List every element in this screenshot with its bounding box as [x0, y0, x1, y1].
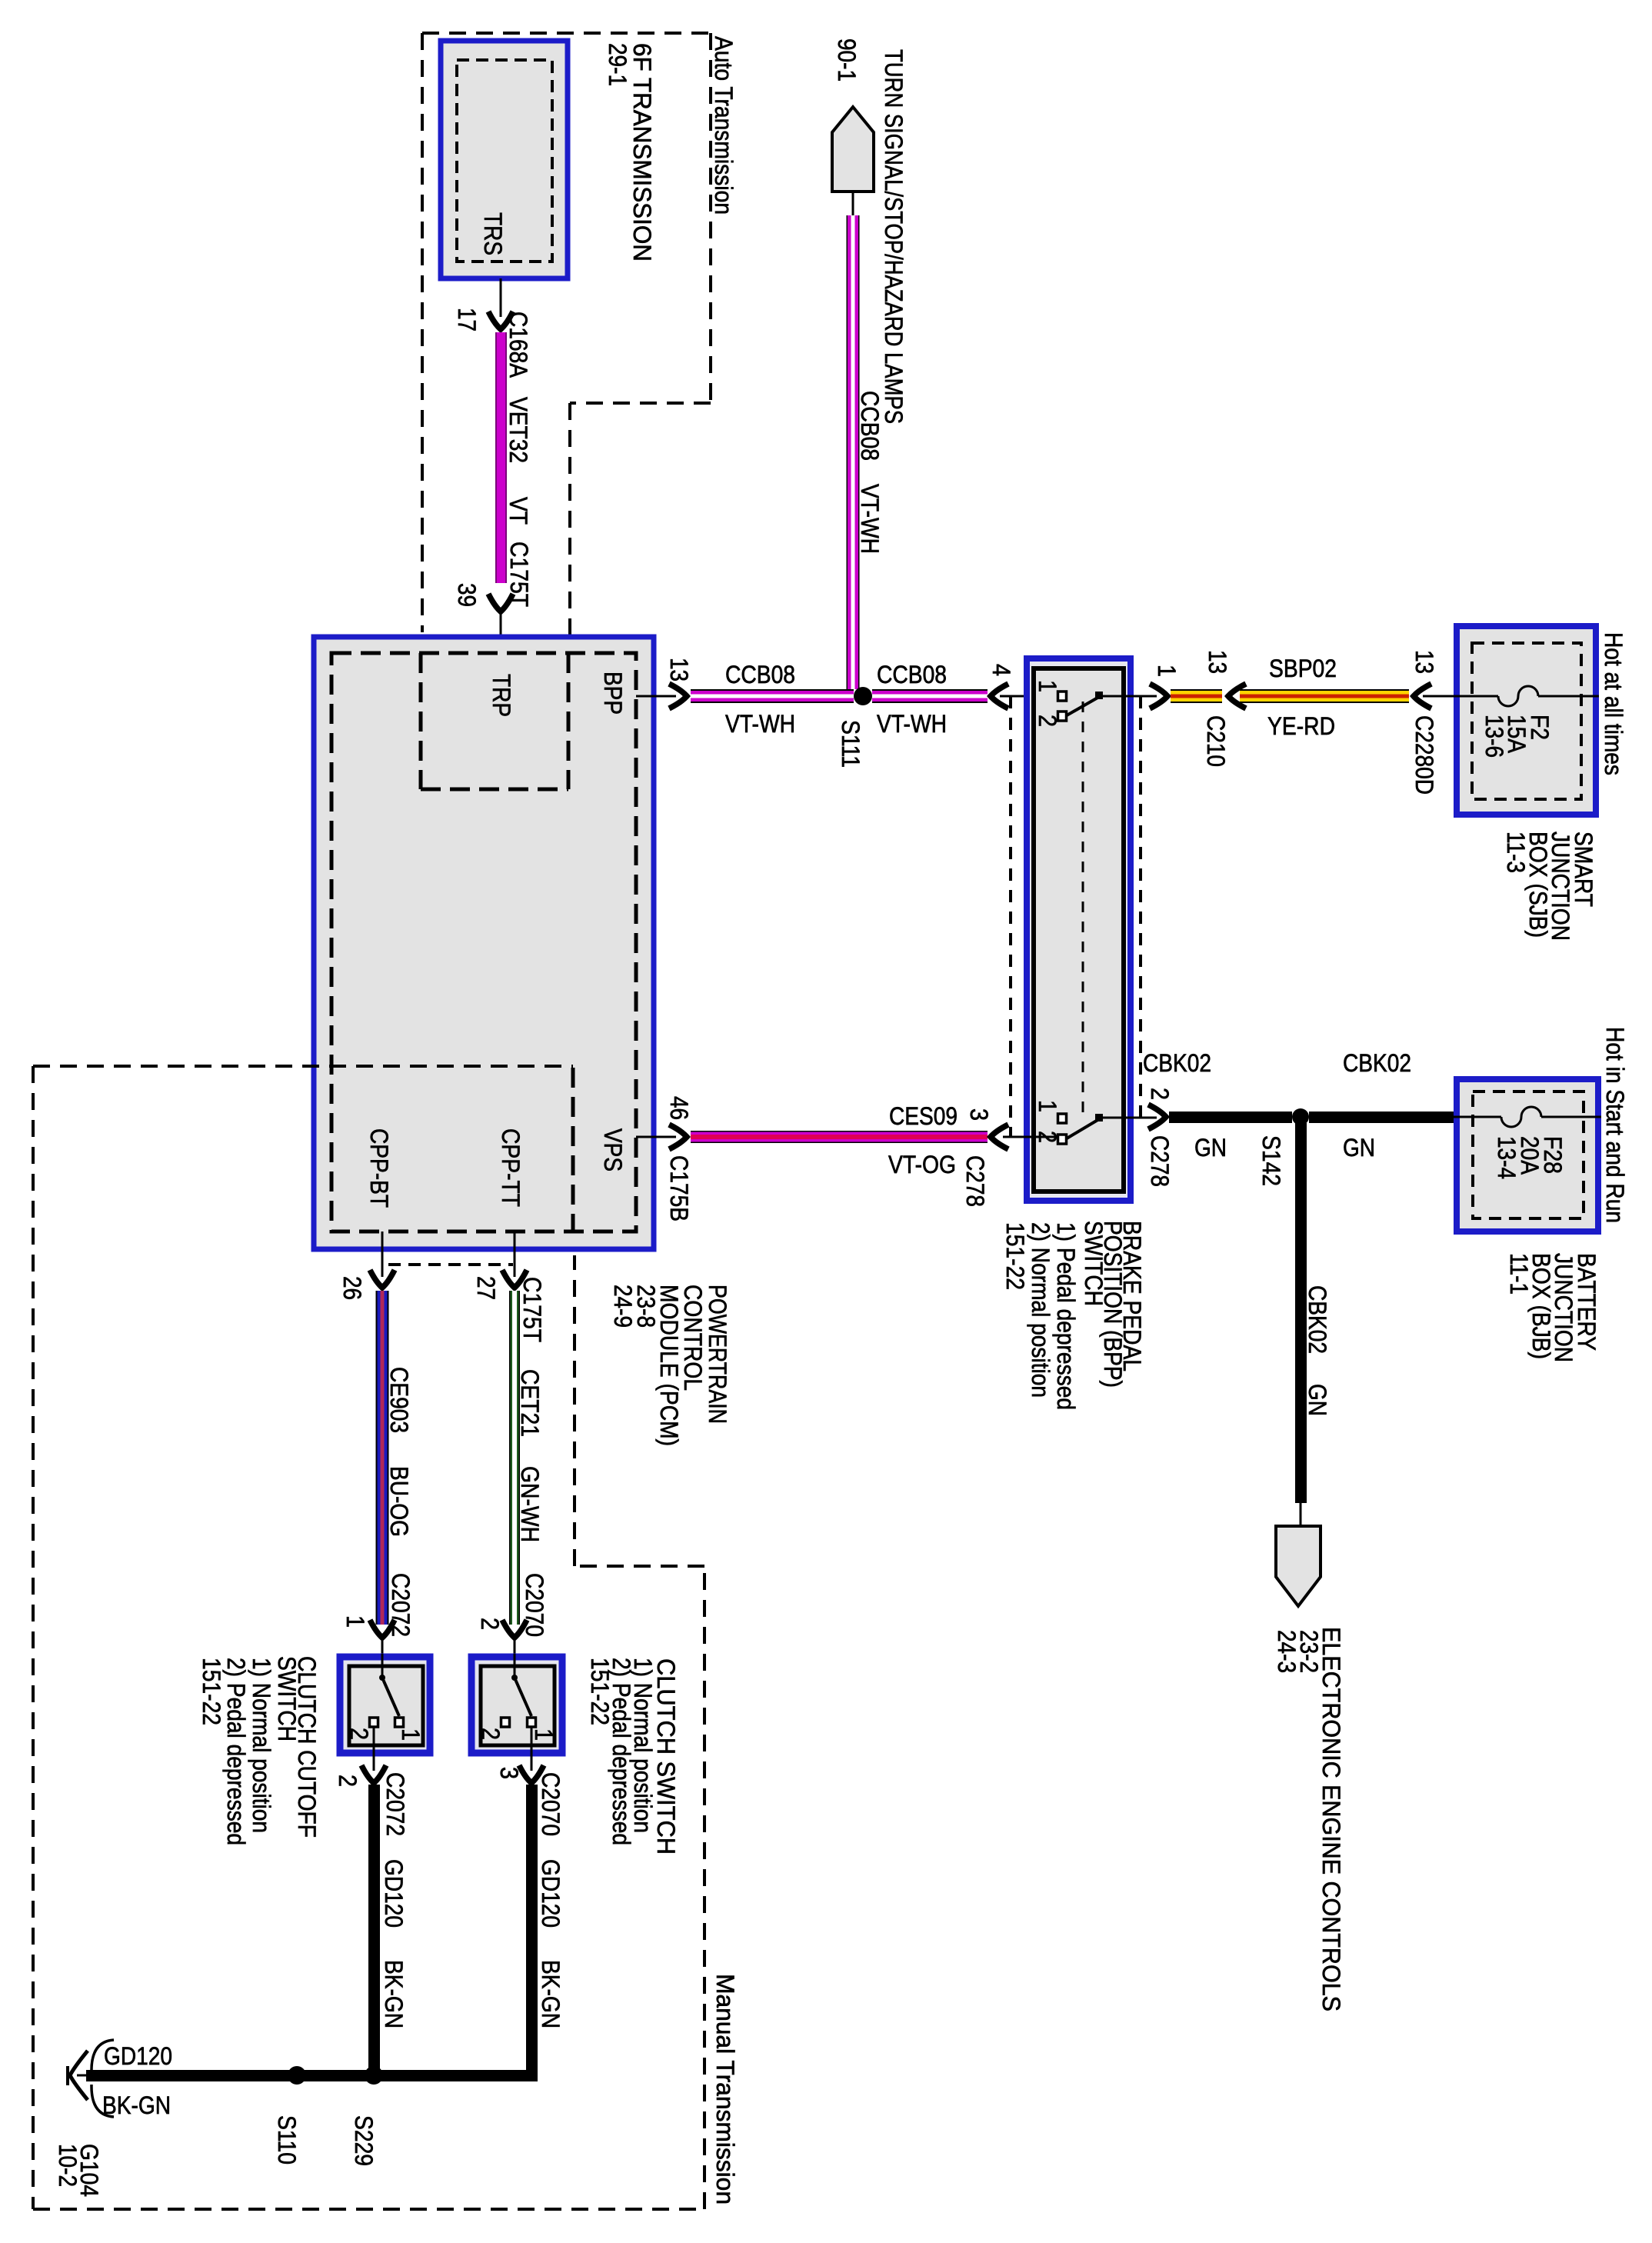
wire stub into PCM TRP pin	[500, 612, 502, 653]
svg-text:C278: C278	[961, 1155, 989, 1207]
svg-text:13: 13	[1411, 650, 1438, 674]
wire CCB08 VT-WH (vertical, violet-white)	[847, 215, 884, 689]
svg-text:CPP-TT: CPP-TT	[497, 1128, 525, 1207]
svg-text:CPP-BT: CPP-BT	[365, 1128, 393, 1208]
svg-text:S142: S142	[1257, 1135, 1285, 1186]
splice S229	[350, 2066, 383, 2166]
svg-text:Auto Transmission: Auto Transmission	[710, 36, 738, 215]
fuse F28 20A	[1454, 1107, 1601, 1179]
svg-text:VT-WH: VT-WH	[856, 484, 884, 554]
svg-text:C2280D: C2280D	[1411, 715, 1438, 795]
svg-text:39: 39	[453, 583, 481, 607]
svg-text:2: 2	[1034, 715, 1061, 727]
PCM pin 13 / wire to S111	[636, 658, 693, 708]
svg-text:CBK02: CBK02	[1143, 1049, 1211, 1077]
svg-text:BK-GN: BK-GN	[102, 2091, 171, 2119]
svg-text:13: 13	[1204, 650, 1231, 674]
connector C278 pin 3	[961, 1108, 1008, 1207]
ground G104	[54, 2051, 103, 2197]
svg-text:GN: GN	[1343, 1134, 1375, 1161]
clutch switch box	[471, 1654, 562, 1771]
wire CCB08 VT-WH right segment	[872, 661, 988, 738]
svg-text:1: 1	[1034, 680, 1061, 692]
wire SBP02 YE-RD segment 2	[1240, 655, 1409, 740]
svg-text:CE903: CE903	[385, 1367, 413, 1433]
svg-text:4: 4	[988, 664, 1015, 676]
wire CES09 VT-OG (violet-orange)	[691, 1102, 988, 1178]
label Hot in Start and Run	[1601, 1027, 1629, 1223]
connector C2280D pin 13 (SJB)	[1411, 650, 1454, 795]
svg-text:2: 2	[476, 1618, 504, 1630]
svg-text:POWERTRAIN: POWERTRAIN	[704, 1285, 731, 1424]
ground bus wire GD120 BK-GN (horizontal)	[86, 2040, 538, 2119]
svg-text:1: 1	[1153, 665, 1181, 677]
svg-text:BK-GN: BK-GN	[537, 1960, 565, 2028]
connector C278 pin 1	[1150, 665, 1181, 708]
svg-text:CET21: CET21	[516, 1369, 544, 1437]
svg-text:2) Normal position: 2) Normal position	[1027, 1222, 1054, 1398]
svg-text:YE-RD: YE-RD	[1267, 712, 1335, 740]
svg-text:6F TRANSMISSION: 6F TRANSMISSION	[628, 43, 656, 262]
svg-text:GD120: GD120	[380, 1859, 408, 1928]
svg-text:Hot at all times: Hot at all times	[1600, 632, 1627, 775]
dashed flank lines around BPP switch	[1011, 696, 1141, 1137]
smart junction box SJB	[1457, 626, 1596, 815]
svg-text:29-1: 29-1	[604, 43, 631, 86]
transmission range sensor TRS box (6F transmission)	[441, 41, 568, 278]
svg-text:1: 1	[341, 1615, 369, 1628]
svg-text:SWITCH: SWITCH	[273, 1656, 301, 1741]
connector C2070 pin 3	[495, 1765, 565, 1836]
svg-text:1) Normal position: 1) Normal position	[248, 1658, 275, 1833]
PCM CPP sub-box	[365, 1068, 573, 1231]
svg-text:C210: C210	[1202, 715, 1230, 767]
svg-text:2: 2	[1146, 1088, 1174, 1100]
connector C168A pin 17	[453, 308, 532, 378]
PCM label	[609, 1285, 731, 1446]
svg-text:GN: GN	[1304, 1384, 1331, 1416]
svg-text:BK-GN: BK-GN	[380, 1960, 408, 2028]
svg-text:2: 2	[477, 1728, 505, 1740]
svg-text:GN-WH: GN-WH	[516, 1466, 544, 1542]
svg-text:C2070: C2070	[537, 1772, 565, 1836]
svg-text:27: 27	[472, 1276, 500, 1300]
PCM pin BPP	[599, 672, 627, 715]
svg-text:TRS: TRS	[479, 212, 507, 255]
SJB label	[1502, 832, 1597, 941]
svg-text:151-22: 151-22	[586, 1658, 614, 1725]
wire CCB08 VT-WH left segment	[691, 661, 854, 738]
connector C175T pin 39	[453, 542, 533, 612]
wire from TRS to connector C168A	[500, 278, 502, 317]
clutch cutoff switch box	[340, 1654, 430, 1771]
svg-text:TRP: TRP	[488, 674, 515, 717]
svg-text:VT: VT	[505, 497, 532, 525]
svg-text:2: 2	[345, 1728, 373, 1740]
splice S142	[1257, 1108, 1309, 1186]
off-page arrow: ELECTRONIC ENGINE CONTROLS 23-2 24-3	[1273, 1526, 1345, 2011]
dashed bracket connector C175T under PCM	[388, 1265, 546, 1342]
svg-text:46: 46	[665, 1096, 693, 1120]
splice S111	[837, 687, 872, 768]
svg-text:VT-WH: VT-WH	[877, 710, 947, 738]
inline connector C210 pin 13	[1202, 650, 1246, 767]
PCM pin 26 CPP-BT	[338, 1231, 395, 1300]
svg-text:3: 3	[495, 1767, 523, 1779]
brake pedal position BPP switch box	[1027, 658, 1131, 1201]
wire CBK02 GN segment 2 (black)	[1309, 1049, 1454, 1161]
svg-text:S111: S111	[837, 720, 864, 768]
svg-text:GD120: GD120	[104, 2042, 172, 2070]
BPP top switch (pin 4 to pin 1)	[1034, 680, 1157, 727]
svg-text:S229: S229	[350, 2115, 378, 2166]
PCM pin VPS	[599, 1128, 627, 1171]
svg-text:GN: GN	[1194, 1134, 1227, 1161]
powertrain control module PCM box	[314, 637, 654, 1249]
svg-text:VT-OG: VT-OG	[888, 1151, 956, 1178]
BJB label	[1505, 1253, 1600, 1362]
svg-text:Hot in Start and Run: Hot in Start and Run	[1601, 1027, 1629, 1223]
svg-text:1: 1	[1034, 1100, 1061, 1112]
svg-text:C278: C278	[1146, 1135, 1174, 1187]
svg-text:C2072: C2072	[387, 1573, 415, 1637]
svg-text:2: 2	[334, 1775, 361, 1787]
svg-text:BPP: BPP	[599, 672, 627, 715]
svg-text:1) Pedal depressed: 1) Pedal depressed	[1052, 1222, 1080, 1410]
svg-text:1: 1	[530, 1728, 558, 1741]
svg-text:24-9: 24-9	[609, 1285, 637, 1328]
svg-text:BU-OG: BU-OG	[385, 1466, 413, 1537]
svg-text:CCB08: CCB08	[877, 661, 947, 688]
clutch switch label	[586, 1658, 680, 1855]
svg-text:C175T: C175T	[505, 542, 533, 607]
svg-text:1: 1	[397, 1728, 425, 1741]
BPP switch label	[1001, 1221, 1146, 1410]
svg-text:CBK02: CBK02	[1304, 1285, 1331, 1354]
wire GD120 BK-GN (left, black)	[368, 1785, 408, 2075]
svg-text:S110: S110	[273, 2115, 301, 2165]
label Hot at all times	[1600, 632, 1627, 775]
svg-text:CCB08: CCB08	[856, 391, 884, 461]
off-page arrow: TURN SIGNAL/STOP/HAZARD LAMPS 90-1	[832, 38, 908, 424]
svg-text:VPS: VPS	[599, 1128, 627, 1171]
svg-text:C2070: C2070	[521, 1573, 548, 1637]
svg-text:TURN SIGNAL/STOP/HAZARD LAMPS: TURN SIGNAL/STOP/HAZARD LAMPS	[880, 49, 908, 424]
svg-text:13-4: 13-4	[1493, 1136, 1520, 1179]
Manual Transmission dashed boundary	[33, 1066, 704, 2209]
svg-text:151-22: 151-22	[1001, 1222, 1029, 1290]
connector C278 pin 2	[1146, 1088, 1174, 1187]
svg-text:VET32: VET32	[505, 397, 532, 463]
PCM TRP sub-box	[421, 653, 568, 789]
svg-text:90-1: 90-1	[833, 38, 861, 82]
svg-text:10-2: 10-2	[54, 2144, 82, 2187]
svg-text:24-3: 24-3	[1273, 1630, 1301, 1673]
svg-text:26: 26	[338, 1276, 366, 1300]
wire CBK02 GN segment 1 (black)	[1143, 1049, 1292, 1161]
wire CET21 GN-WH (green-white)	[509, 1291, 544, 1625]
wire GD120 BK-GN (right, black)	[526, 1785, 565, 2075]
svg-text:ELECTRONIC ENGINE CONTROLS: ELECTRONIC ENGINE CONTROLS	[1317, 1627, 1345, 2011]
PCM pin 46 / wire CES09	[636, 1096, 693, 1221]
svg-text:SBP02: SBP02	[1269, 655, 1337, 682]
label Auto Transmission	[710, 36, 738, 215]
svg-text:13: 13	[665, 658, 693, 682]
connector C278 pin 4 (BPP switch)	[988, 664, 1058, 708]
BPP bottom switch (pin 3 to pin 2)	[1003, 1100, 1157, 1144]
PCM pin 27 CPP-TT	[472, 1231, 527, 1300]
fuse F2 15A	[1454, 686, 1599, 758]
boundary: Auto Transmission dashed region	[422, 33, 711, 632]
wire CE903 BU-OG (blue-orange)	[376, 1291, 414, 1625]
svg-text:151-22: 151-22	[198, 1658, 225, 1725]
svg-text:CBK02: CBK02	[1343, 1049, 1411, 1077]
connector C2072 pin 1	[341, 1573, 415, 1654]
connector C2070 pin 2	[476, 1573, 548, 1654]
svg-text:Manual Transmission: Manual Transmission	[711, 1974, 739, 2205]
label Manual Transmission	[711, 1974, 739, 2205]
wire SBP02 YE-RD segment 1	[1171, 689, 1222, 703]
svg-text:SWITCH: SWITCH	[1080, 1221, 1107, 1306]
svg-text:11-1: 11-1	[1505, 1253, 1533, 1295]
svg-text:11-3: 11-3	[1502, 832, 1530, 873]
svg-text:2) Pedal depressed: 2) Pedal depressed	[222, 1658, 250, 1845]
splice S110	[273, 2066, 306, 2165]
wire CBK02 GN down to engine controls	[1295, 1123, 1331, 1526]
svg-text:C175B: C175B	[665, 1155, 693, 1221]
svg-text:C175T: C175T	[518, 1277, 546, 1342]
svg-text:CCB08: CCB08	[725, 661, 795, 688]
wire VET32 VT (violet)	[495, 332, 532, 583]
boundary leg through PCM (Auto Transmission)	[568, 403, 571, 1066]
svg-text:CES09: CES09	[889, 1102, 958, 1130]
svg-text:13-6: 13-6	[1480, 715, 1508, 758]
svg-text:GD120: GD120	[537, 1859, 565, 1928]
svg-text:C2072: C2072	[381, 1772, 409, 1836]
clutch cutoff switch label	[198, 1656, 321, 1845]
svg-text:VT-WH: VT-WH	[725, 710, 795, 738]
battery junction box BJB	[1457, 1079, 1598, 1231]
svg-text:3: 3	[965, 1108, 993, 1121]
connector C2072 pin 2	[334, 1765, 409, 1836]
svg-text:C168A: C168A	[505, 312, 532, 378]
svg-text:17: 17	[453, 308, 481, 332]
